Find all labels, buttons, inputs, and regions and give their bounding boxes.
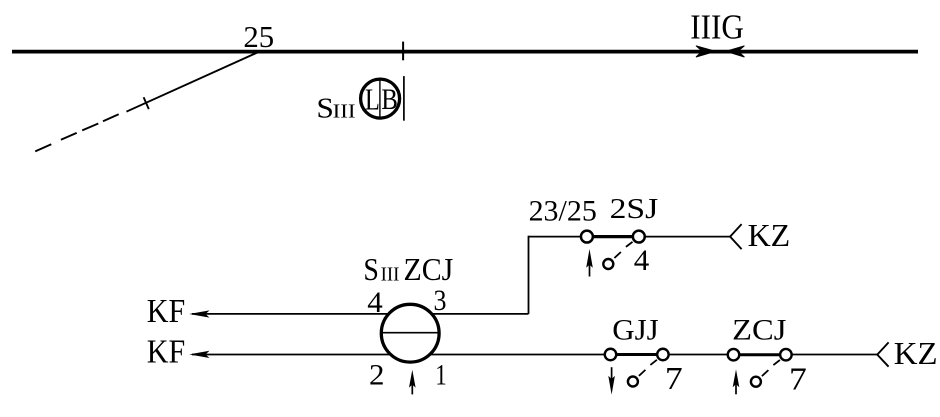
wire bottom KF line bbox=[192, 354, 877, 356]
arrowhead KF top bbox=[189, 310, 209, 317]
svg-text:ZCJ: ZCJ bbox=[732, 313, 787, 346]
KZ top angle bracket bbox=[730, 224, 742, 249]
letter B in circle bbox=[381, 83, 398, 116]
signal LB circle bbox=[361, 79, 400, 118]
label KF top bbox=[147, 293, 185, 330]
relay up arrow bbox=[409, 370, 416, 395]
arrowhead KF bottom bbox=[189, 351, 209, 358]
contact 2SJ up arrow bbox=[586, 249, 593, 277]
contact ZCJ right terminal circle bbox=[780, 349, 792, 361]
contact 2SJ movable tail bbox=[626, 242, 633, 247]
letter L in circle bbox=[365, 82, 380, 116]
label S III ZCJ (relay name) bbox=[363, 251, 453, 287]
label S III (signal name) bbox=[316, 94, 355, 125]
svg-text:B: B bbox=[381, 83, 398, 116]
signal LB circle chord bbox=[379, 79, 381, 117]
contact 2SJ left terminal circle bbox=[581, 231, 593, 243]
svg-text:4: 4 bbox=[367, 286, 383, 319]
svg-text:7: 7 bbox=[665, 361, 683, 396]
svg-text:4: 4 bbox=[634, 244, 650, 277]
svg-text:7: 7 bbox=[789, 361, 807, 396]
tick mark on turnout branch bbox=[144, 97, 149, 109]
svg-text:KF: KF bbox=[147, 334, 185, 371]
contact GJJ down arrow bbox=[608, 367, 615, 394]
contact ZCJ closed bar bbox=[740, 353, 780, 356]
contact 2SJ closed bar bbox=[593, 235, 633, 238]
svg-text:III: III bbox=[381, 265, 400, 286]
svg-text:III: III bbox=[333, 101, 356, 123]
signal mast vertical line bbox=[403, 76, 405, 121]
label IIIG (track name) bbox=[690, 8, 744, 47]
turnout branch wire (solid part) bbox=[127, 52, 259, 112]
svg-text:L: L bbox=[365, 82, 380, 116]
label KF bottom bbox=[147, 334, 185, 371]
label 25 (turnout number) bbox=[243, 19, 274, 54]
label GJJ (relay name) bbox=[612, 313, 659, 346]
turnout branch wire (dashed part) bbox=[35, 114, 119, 151]
track main line IIIG bbox=[12, 50, 918, 54]
wire top contact branch bbox=[529, 236, 731, 238]
contact GJJ movable tail bbox=[650, 360, 657, 365]
contact 2SJ right terminal circle bbox=[633, 231, 645, 243]
contact ZCJ movable tail bbox=[773, 360, 780, 365]
wire vertical from relay to contact branch bbox=[528, 236, 530, 314]
contact ZCJ actuator circle with slash bbox=[751, 370, 769, 387]
contact ZCJ up arrow bbox=[733, 369, 740, 394]
svg-text:25: 25 bbox=[243, 19, 274, 54]
label 23/25 (switch contact name) bbox=[529, 196, 597, 228]
contact 2SJ actuator circle with slash bbox=[603, 252, 621, 269]
label KZ top bbox=[748, 218, 791, 253]
contact GJJ closed bar bbox=[617, 353, 657, 356]
svg-text:S: S bbox=[316, 94, 334, 125]
label 4 (2SJ contact number) bbox=[634, 244, 650, 277]
svg-text:3: 3 bbox=[434, 284, 447, 317]
contact ZCJ left terminal circle bbox=[728, 349, 740, 361]
svg-text:IIIG: IIIG bbox=[690, 8, 744, 47]
relay coil chord bbox=[381, 332, 439, 334]
svg-text:S: S bbox=[363, 251, 379, 287]
label 1 (relay terminal) bbox=[435, 358, 447, 391]
label KZ bottom bbox=[894, 336, 938, 371]
label 7 (GJJ contact number) bbox=[665, 361, 683, 396]
svg-text:KF: KF bbox=[147, 293, 185, 330]
wire top KF line bbox=[192, 313, 529, 315]
svg-text:KZ: KZ bbox=[748, 218, 791, 253]
contact GJJ right terminal circle bbox=[657, 349, 669, 361]
contact GJJ left terminal circle bbox=[605, 349, 617, 361]
label 7 (ZCJ contact number) bbox=[789, 361, 807, 396]
right-pointing arrowhead on track bbox=[696, 46, 716, 57]
label 4 (relay terminal) bbox=[367, 286, 383, 319]
svg-text:ZCJ: ZCJ bbox=[404, 251, 454, 287]
label 2 (relay terminal) bbox=[369, 359, 385, 392]
insulated joint tick on main line bbox=[402, 42, 404, 61]
svg-text:1: 1 bbox=[435, 358, 447, 391]
contact GJJ actuator circle with slash bbox=[628, 370, 646, 387]
svg-text:KZ: KZ bbox=[894, 336, 938, 371]
left-pointing arrowhead on track bbox=[726, 46, 745, 57]
label 3 (relay terminal) bbox=[434, 284, 447, 317]
relay S III ZCJ coil circle bbox=[381, 304, 439, 362]
KZ bottom angle bracket bbox=[877, 342, 888, 366]
svg-text:23/25: 23/25 bbox=[529, 196, 597, 228]
svg-text:2: 2 bbox=[369, 359, 385, 392]
svg-text:GJJ: GJJ bbox=[612, 313, 659, 346]
svg-text:2SJ: 2SJ bbox=[610, 193, 659, 225]
label ZCJ (relay name) bbox=[732, 313, 787, 346]
label 2SJ (relay name) bbox=[610, 193, 659, 225]
